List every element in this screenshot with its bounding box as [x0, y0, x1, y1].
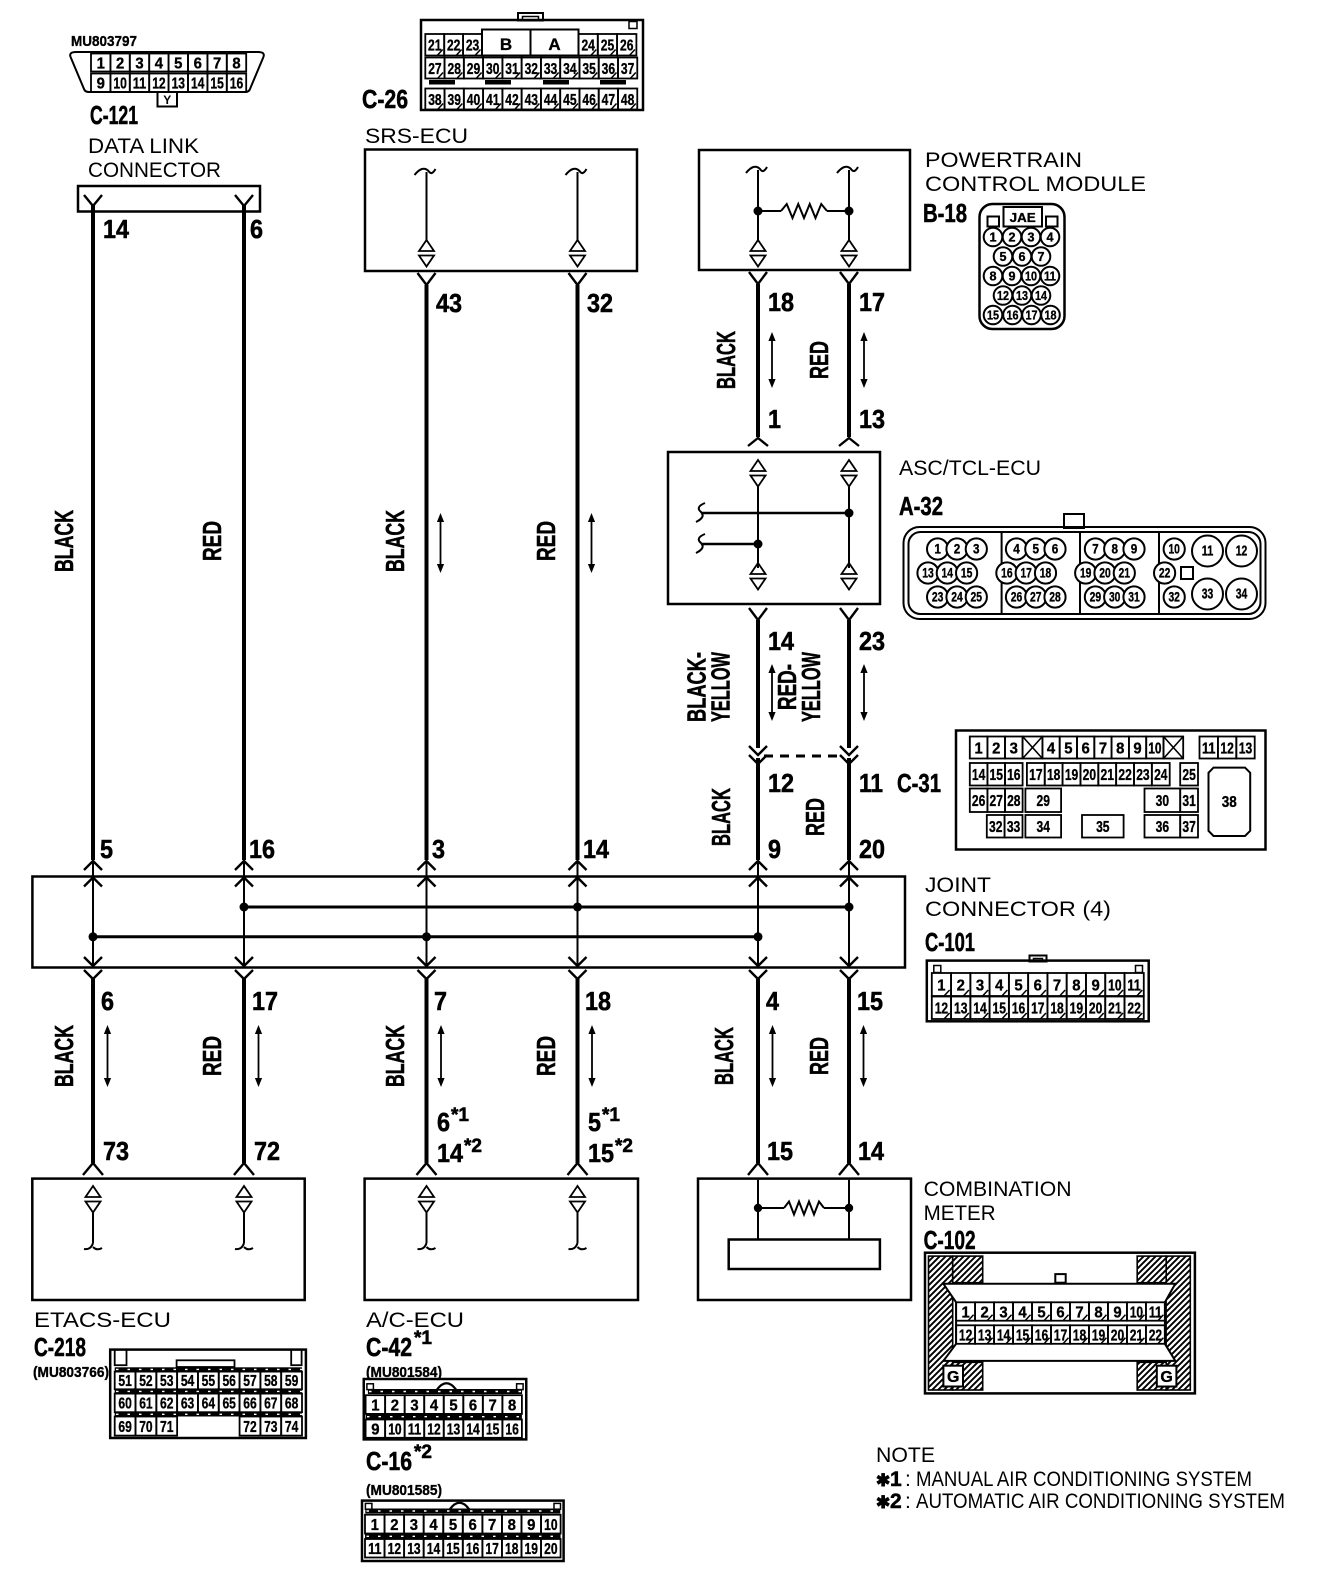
svg-text:16: 16: [1007, 767, 1020, 784]
svg-text:3: 3: [135, 55, 143, 72]
svg-text:9: 9: [768, 834, 781, 864]
connector B-18 index squares: [988, 217, 1000, 227]
wire BLACK from joint connector pin 6 down: [91, 979, 95, 1163]
svg-text:7: 7: [213, 55, 221, 72]
ETACS internal terminal pin73: [86, 1186, 101, 1197]
component box POWERTRAIN CONTROL MODULE: [699, 150, 910, 270]
meter internal resistor: [758, 1207, 784, 1209]
svg-text:17: 17: [1026, 308, 1038, 323]
svg-text:20: 20: [1099, 565, 1111, 580]
svg-text:16: 16: [230, 76, 243, 93]
svg-text:JOINT: JOINT: [925, 874, 991, 897]
svg-text:72: 72: [254, 1136, 280, 1166]
svg-text:CONTROL MODULE: CONTROL MODULE: [925, 173, 1146, 196]
joint connector exit marks wire 2: [235, 957, 253, 966]
terminal fork C-121 pin 14: [84, 195, 102, 206]
svg-text:69: 69: [118, 1419, 131, 1436]
svg-text:23: 23: [859, 626, 885, 656]
connector C-26 row2 pins 27-37: [425, 58, 637, 79]
ASC internal terminals pin13 wire: [842, 460, 857, 471]
pin label 5*1 15*2: [588, 1105, 633, 1168]
svg-text:19: 19: [1092, 1327, 1105, 1344]
svg-text:16: 16: [1035, 1327, 1048, 1344]
signal arrow: [772, 1032, 774, 1080]
svg-text:12: 12: [935, 1001, 948, 1018]
svg-text:73: 73: [264, 1419, 277, 1436]
svg-text:23: 23: [932, 589, 944, 604]
junction dot: [845, 1204, 853, 1212]
svg-text:1: 1: [768, 404, 781, 434]
PCM internal resistor: [758, 210, 781, 212]
svg-text:51: 51: [118, 1373, 131, 1390]
svg-text:5: 5: [1037, 1304, 1045, 1321]
svg-text:24: 24: [581, 38, 594, 55]
svg-text:C-26: C-26: [362, 84, 408, 114]
svg-text:C-121: C-121: [90, 100, 138, 130]
wire RED-YELLOW from ASC pin23 to C-31 pin11: [847, 620, 851, 748]
svg-text:8: 8: [1094, 1304, 1102, 1321]
svg-text:9: 9: [1131, 541, 1138, 556]
svg-text:14: 14: [942, 565, 954, 580]
svg-text:17: 17: [1054, 1327, 1067, 1344]
connector C-31 row4 pins 32-37: [987, 815, 1198, 838]
svg-text:4: 4: [1018, 1304, 1026, 1321]
connector C-218 tabs: [115, 1350, 127, 1366]
connector C-101 row2 pins 12-22: [932, 997, 1144, 1020]
svg-text:43: 43: [525, 92, 538, 109]
svg-text:7: 7: [1075, 1304, 1083, 1321]
connector C-31 row1 pins 1-13 with blanks: [970, 737, 1255, 759]
svg-text:*1: *1: [602, 1105, 620, 1126]
svg-text:12: 12: [152, 76, 165, 93]
svg-text:5: 5: [1064, 740, 1072, 757]
connector C-42 index squares and bump: [367, 1384, 374, 1390]
svg-text:5: 5: [1014, 977, 1022, 994]
svg-text:BLACK: BLACK: [709, 1027, 739, 1085]
svg-text:7: 7: [1053, 977, 1061, 994]
svg-text:34: 34: [1236, 585, 1248, 602]
svg-text:8: 8: [990, 269, 997, 284]
meter internal wire left: [757, 1180, 759, 1240]
connector C-42 row1 pins 1-8: [366, 1395, 522, 1414]
svg-text:53: 53: [160, 1373, 173, 1390]
svg-text:12: 12: [388, 1541, 401, 1558]
svg-text:25: 25: [1182, 767, 1195, 784]
wire BLACK from C-31 pin9 to joint connector: [756, 758, 760, 860]
svg-text:11: 11: [408, 1421, 421, 1438]
svg-text:*2: *2: [464, 1136, 482, 1157]
svg-text:5: 5: [1033, 541, 1040, 556]
ASC internal link lower: [696, 534, 705, 553]
svg-text:14: 14: [103, 214, 129, 244]
connector C-218 row2 pins 60-68: [115, 1394, 302, 1413]
junction dot: [754, 1204, 762, 1212]
connector C-26 row1 pins 21-23: [425, 34, 482, 56]
connector A-32 group dividers: [1001, 532, 1003, 614]
svg-text:11: 11: [1202, 740, 1215, 757]
svg-text:19: 19: [1080, 565, 1092, 580]
svg-text:13: 13: [172, 76, 185, 93]
connector B-18 pins 1-4: [984, 228, 1060, 247]
terminal fork PCM pin 18: [749, 272, 767, 284]
svg-text:43: 43: [436, 288, 462, 318]
wire BLACK from SRS-ECU pin43 to joint connector pin3: [425, 285, 429, 860]
connector C-102 row1 pins 1-11: [956, 1302, 1165, 1321]
svg-text:33: 33: [1007, 819, 1020, 836]
svg-text:10: 10: [1108, 977, 1121, 994]
connector C-42 separator band: [366, 1414, 522, 1419]
joint connector exit marks wire 6: [840, 957, 858, 966]
svg-text:C-218: C-218: [34, 1332, 86, 1362]
svg-text:*1: *1: [451, 1105, 469, 1126]
svg-text:11: 11: [133, 76, 146, 93]
svg-text:12: 12: [1236, 542, 1248, 559]
connector C-26 locking tab: [518, 13, 543, 21]
svg-text:6: 6: [1019, 249, 1026, 264]
svg-text:36: 36: [602, 61, 615, 78]
terminal fork wire 4 bottom: [568, 1163, 588, 1175]
svg-text:24: 24: [1154, 767, 1167, 784]
connector C-218 separator bands: [115, 1367, 302, 1416]
svg-text:48: 48: [621, 92, 634, 109]
svg-text:5: 5: [588, 1107, 601, 1137]
signal arrow: [591, 1032, 593, 1080]
wire BLACK from PCM pin18 to ASC/TCL-ECU pin1: [756, 284, 760, 437]
svg-text:47: 47: [602, 92, 615, 109]
svg-text:1: 1: [937, 977, 945, 994]
svg-text:14: 14: [466, 1421, 479, 1438]
svg-text:BLACK: BLACK: [380, 1025, 410, 1087]
svg-text:63: 63: [181, 1396, 194, 1413]
svg-text:14: 14: [427, 1541, 440, 1558]
svg-text:2: 2: [954, 541, 961, 556]
svg-text:14: 14: [973, 1001, 986, 1018]
svg-text:13: 13: [859, 404, 885, 434]
svg-text:18: 18: [1047, 767, 1060, 784]
connector C-101 top tab: [1030, 956, 1047, 962]
connector C-31 cavity 38: [1209, 768, 1251, 836]
svg-text:23: 23: [1136, 767, 1149, 784]
svg-text:12: 12: [768, 768, 794, 798]
connector C-16 row2 pins 11-20: [365, 1539, 561, 1558]
svg-text:14: 14: [768, 626, 794, 656]
svg-text:13: 13: [922, 565, 934, 580]
terminal fork ASC pin 14: [749, 608, 767, 620]
connector C-26 separator bars: [429, 80, 626, 85]
signal arrow: [258, 1032, 260, 1080]
svg-text:13: 13: [1016, 288, 1028, 303]
connector C-26 row1 pins 24-26: [579, 34, 637, 56]
svg-text:✱: ✱: [876, 1471, 890, 1490]
svg-text:29: 29: [1037, 793, 1050, 810]
connector C-16 row1 pins 1-10: [365, 1515, 561, 1534]
svg-text:4: 4: [429, 1517, 437, 1534]
connector A-32 pins 33-34: [1192, 579, 1223, 610]
svg-text:20: 20: [1089, 1001, 1102, 1018]
svg-text:74: 74: [285, 1419, 298, 1436]
connector B-18 pins 8-11: [984, 267, 1060, 286]
component box C-121 DATA LINK CONNECTOR: [78, 186, 260, 212]
svg-text:39: 39: [447, 92, 460, 109]
svg-text:17: 17: [1031, 1001, 1044, 1018]
svg-text:*2: *2: [414, 1442, 432, 1463]
svg-text:19: 19: [1070, 1001, 1083, 1018]
svg-text:13: 13: [978, 1327, 991, 1344]
svg-text:14: 14: [1035, 288, 1048, 303]
svg-text:55: 55: [202, 1373, 215, 1390]
wire BLACK from joint connector pin 4 down: [756, 979, 760, 1163]
svg-text:RED: RED: [804, 1037, 834, 1075]
svg-text:G: G: [947, 1369, 959, 1386]
svg-text:66: 66: [243, 1396, 256, 1413]
joint connector entry marks wire 2: [235, 861, 253, 870]
svg-text:18: 18: [768, 287, 794, 317]
signal arrow: [863, 1032, 865, 1080]
junction dot: [89, 932, 98, 941]
connector C-102 ground cavity left: [943, 1366, 963, 1387]
joint connector entry marks wire 6: [840, 861, 858, 870]
connector A-32 pins 13-22: [917, 562, 1175, 583]
svg-text:8: 8: [232, 55, 240, 72]
joint connector internal wire 5: [757, 861, 759, 966]
wire RED from SRS-ECU pin32 to joint connector pin14: [576, 285, 580, 860]
svg-text:29: 29: [1090, 589, 1102, 604]
svg-text:65: 65: [222, 1396, 235, 1413]
svg-text:✱: ✱: [876, 1493, 890, 1512]
svg-text:52: 52: [139, 1373, 152, 1390]
svg-text:18: 18: [505, 1541, 518, 1558]
connector C-218 pictogram outline: [110, 1350, 306, 1438]
svg-text:22: 22: [1159, 565, 1171, 580]
svg-text:46: 46: [582, 92, 595, 109]
svg-text:32: 32: [525, 61, 538, 78]
svg-text:54: 54: [181, 1373, 194, 1390]
svg-text:16: 16: [505, 1421, 518, 1438]
component box COMBINATION METER: [698, 1179, 911, 1300]
svg-text:CONNECTOR (4): CONNECTOR (4): [925, 898, 1111, 921]
svg-text:12: 12: [427, 1421, 440, 1438]
terminal fork SRS-ECU pin 32: [569, 273, 587, 285]
svg-text:5: 5: [449, 1517, 457, 1534]
connector C-26 row3 pins 38-48: [425, 89, 637, 110]
svg-text:9: 9: [97, 76, 105, 93]
svg-text:71: 71: [160, 1419, 173, 1436]
svg-text:15: 15: [961, 565, 973, 580]
joint connector entry marks wire 1: [84, 861, 102, 870]
svg-text:COMBINATION: COMBINATION: [924, 1178, 1072, 1201]
SRS-ECU internal pigtail pin32: [566, 169, 587, 175]
joint connector internal wire 3: [426, 861, 428, 966]
ASC internal link upper: [696, 503, 705, 522]
connector C-16 pictogram outline: [362, 1501, 564, 1561]
svg-text:17: 17: [485, 1541, 498, 1558]
svg-text:5: 5: [100, 834, 113, 864]
svg-text:32: 32: [587, 288, 613, 318]
svg-text:4: 4: [430, 1397, 438, 1414]
svg-text:6: 6: [1052, 541, 1059, 556]
svg-text:2: 2: [890, 1490, 902, 1513]
svg-text:4: 4: [155, 55, 163, 72]
joint connector entry marks wire 3: [418, 861, 436, 870]
svg-text:4: 4: [1047, 230, 1055, 245]
svg-text:10: 10: [113, 76, 126, 93]
svg-text:8: 8: [508, 1397, 516, 1414]
connector C-218 row1 pins 51-59: [115, 1372, 302, 1391]
svg-text:15: 15: [446, 1541, 459, 1558]
svg-text:14: 14: [997, 1327, 1010, 1344]
svg-text:15: 15: [989, 767, 1002, 784]
svg-text:3: 3: [410, 1397, 418, 1414]
svg-text:3: 3: [976, 977, 984, 994]
ETACS internal terminal pin72: [237, 1186, 252, 1197]
PCM internal pigtail pin17: [837, 167, 858, 173]
svg-text:16: 16: [1012, 1001, 1025, 1018]
signal arrow: [107, 1032, 109, 1080]
svg-text:37: 37: [621, 61, 634, 78]
svg-text:1: 1: [97, 55, 105, 72]
connector C-31 pictogram outline: [956, 731, 1266, 850]
svg-text:JAE: JAE: [1010, 210, 1036, 225]
connector C-101 pictogram outline: [927, 961, 1149, 1022]
svg-text:16: 16: [466, 1541, 479, 1558]
svg-text:1: 1: [990, 230, 997, 245]
svg-text:10: 10: [544, 1517, 557, 1534]
component box SRS-ECU: [365, 150, 637, 272]
A/C internal terminal: [419, 1186, 434, 1197]
svg-text:3: 3: [1010, 740, 1018, 757]
connector B-18 pins 15-18: [984, 306, 1060, 325]
svg-text:RED: RED: [197, 1036, 227, 1076]
svg-text:10: 10: [1148, 740, 1161, 757]
svg-text:13: 13: [447, 1421, 460, 1438]
svg-text:18: 18: [1040, 565, 1052, 580]
svg-text:36: 36: [1156, 819, 1169, 836]
svg-text:8: 8: [1111, 541, 1118, 556]
terminal fork wire 5 bottom: [748, 1163, 768, 1175]
svg-text:20: 20: [859, 834, 885, 864]
svg-text:6: 6: [194, 55, 202, 72]
svg-text:11: 11: [1202, 542, 1214, 559]
connector C-26 pictogram outline: [421, 20, 643, 110]
signal arrow: [771, 671, 773, 714]
svg-text:56: 56: [222, 1373, 235, 1390]
svg-text:9: 9: [1133, 740, 1141, 757]
svg-text:RED: RED: [531, 1036, 561, 1076]
svg-text::: :: [905, 1490, 911, 1513]
svg-text:21: 21: [1130, 1327, 1143, 1344]
svg-text:6: 6: [1082, 740, 1090, 757]
connector C-218 row3 pins 69-74: [115, 1417, 302, 1436]
connector C-121 pin row 1 pins 1-8: [91, 54, 246, 73]
svg-text:9: 9: [527, 1517, 535, 1534]
svg-text:15: 15: [588, 1138, 614, 1168]
svg-text:G: G: [1160, 1369, 1172, 1386]
connector C-16 index squares and bump: [365, 1503, 372, 1509]
svg-text:27: 27: [1030, 589, 1042, 604]
meter internal wire right: [848, 1180, 850, 1240]
connector C-102 hatched side frames: [929, 1256, 1191, 1390]
svg-text:59: 59: [285, 1373, 298, 1390]
SRS-ECU internal pigtail pin43: [415, 169, 436, 175]
connector C-16 top band: [365, 1509, 560, 1514]
svg-text:40: 40: [467, 92, 480, 109]
svg-text:4: 4: [1047, 740, 1055, 757]
svg-text:24: 24: [951, 589, 963, 604]
svg-text:MANUAL AIR CONDITIONING SYSTEM: MANUAL AIR CONDITIONING SYSTEM: [916, 1468, 1252, 1491]
connector C-101 index squares: [934, 966, 941, 973]
svg-text:B: B: [500, 35, 512, 54]
svg-text:25: 25: [601, 38, 614, 55]
svg-text:35: 35: [582, 61, 595, 78]
svg-text:*1: *1: [414, 1328, 432, 1349]
junction dot: [422, 932, 431, 941]
svg-text:14: 14: [583, 834, 609, 864]
PCM internal pigtail pin18: [746, 167, 767, 173]
connector C-102 ground cavity right: [1157, 1366, 1177, 1387]
svg-text:44: 44: [544, 92, 557, 109]
svg-text:10: 10: [1130, 1304, 1143, 1321]
signal arrow: [863, 339, 865, 381]
svg-text:18: 18: [1050, 1001, 1063, 1018]
svg-text:9: 9: [1009, 269, 1016, 284]
connector C-121 pin row 2 pins 9-16: [91, 74, 246, 93]
svg-text:9: 9: [1091, 977, 1099, 994]
svg-text:28: 28: [447, 61, 460, 78]
svg-text:6: 6: [468, 1517, 476, 1534]
svg-text:5: 5: [1000, 249, 1007, 264]
svg-text:2: 2: [391, 1397, 399, 1414]
svg-text:30: 30: [1109, 589, 1121, 604]
svg-text:13: 13: [1239, 740, 1252, 757]
joint connector internal wire 1: [92, 861, 94, 966]
joint connector internal wire 2: [243, 861, 245, 966]
wire RED from joint connector pin 17 down: [242, 979, 246, 1163]
svg-text:16: 16: [1007, 308, 1019, 323]
svg-text:C-31: C-31: [897, 768, 941, 798]
svg-text:(MU801585): (MU801585): [366, 1482, 442, 1499]
svg-text:A: A: [548, 35, 560, 54]
svg-text:11: 11: [859, 768, 883, 798]
svg-text:22: 22: [1118, 767, 1131, 784]
joint connector exit marks wire 5: [749, 957, 767, 966]
terminal fork wire 6 bottom: [839, 1163, 859, 1175]
svg-text:RED: RED: [197, 521, 227, 561]
svg-text:30: 30: [1156, 793, 1169, 810]
svg-text:32: 32: [1168, 589, 1180, 604]
connector B-18 pins 5-7: [994, 247, 1051, 266]
svg-text:15: 15: [987, 308, 999, 323]
svg-text:68: 68: [285, 1396, 298, 1413]
svg-text:45: 45: [563, 92, 576, 109]
svg-text:SRS-ECU: SRS-ECU: [365, 125, 468, 148]
svg-text:9: 9: [371, 1421, 379, 1438]
svg-text:8: 8: [1072, 977, 1080, 994]
connector A-32 index square: [1181, 567, 1193, 579]
svg-text:26: 26: [1011, 589, 1023, 604]
svg-text:23: 23: [466, 38, 479, 55]
svg-text:67: 67: [264, 1396, 277, 1413]
svg-text:YELLOW: YELLOW: [706, 652, 736, 722]
svg-text:6: 6: [469, 1397, 477, 1414]
svg-text:2: 2: [980, 1304, 988, 1321]
svg-text:RED: RED: [804, 341, 834, 379]
svg-text:11: 11: [368, 1541, 381, 1558]
svg-text:26: 26: [972, 793, 985, 810]
svg-text:35: 35: [1096, 819, 1109, 836]
junction dot: [573, 903, 582, 912]
meter internal gauge box: [729, 1240, 880, 1270]
connector C-102 top tab: [1055, 1274, 1065, 1283]
